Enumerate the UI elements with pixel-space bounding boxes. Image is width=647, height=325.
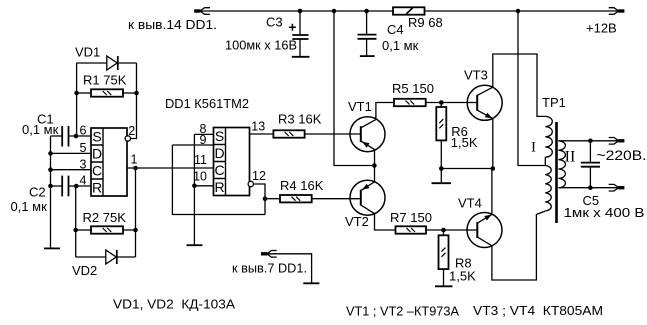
- transistor VT2 (KT973A, PNP): [350, 180, 385, 215]
- svg-text:VD2: VD2: [72, 263, 97, 278]
- svg-text:VD1, VD2 КД-103А: VD1, VD2 КД-103А: [113, 297, 236, 311]
- wire: VD1 cathode lead: [117, 62, 136, 64]
- junction: R5/R6/VT3 base: [439, 100, 444, 105]
- ground: R8 terminal bar: [435, 285, 453, 287]
- junction: pin 6 node: [74, 134, 79, 139]
- svg-text:0,1 мк: 0,1 мк: [382, 38, 419, 53]
- svg-text:VT1: VT1: [348, 99, 372, 114]
- junction: VT3/VT4 emitters: [491, 166, 496, 171]
- resistor R3: [273, 130, 304, 137]
- wire: R3 to VT1 base: [305, 133, 361, 135]
- ground: emitter common: [440, 169, 442, 184]
- junction: pin 8/10 tie: [192, 184, 197, 189]
- svg-text:3: 3: [80, 157, 87, 171]
- off-page arrow: output top: [618, 139, 624, 142]
- transistor VT1 (KT973A, PNP): [350, 117, 385, 152]
- svg-text:R1 75K: R1 75K: [83, 73, 127, 88]
- junction: VT1/VT2 emitters / +12V: [372, 163, 377, 168]
- junction: R1/VD1 left: [74, 91, 79, 96]
- svg-text:C: C: [92, 162, 102, 178]
- wire: pin 7 net: [267, 254, 312, 283]
- junction: rail / C4: [364, 9, 369, 14]
- wire: VT3 emitter to common node: [492, 119, 494, 169]
- wire: VT4 emitter to common node: [491, 169, 493, 215]
- resistor R2: [91, 226, 123, 233]
- svg-text:C3: C3: [266, 15, 283, 30]
- resistor R5: [394, 99, 426, 106]
- wire: R6 to emitter common: [440, 140, 442, 168]
- wire: DD1.2 pin 8 (S): [194, 133, 213, 135]
- TP1 secondary winding II: [558, 141, 565, 188]
- wire: R2 right lead: [123, 229, 136, 231]
- svg-text:~220В.: ~220В.: [597, 148, 647, 163]
- svg-text:DD1 К561ТМ2: DD1 К561ТМ2: [165, 96, 249, 111]
- svg-text:D: D: [92, 145, 102, 161]
- svg-text:VT1 ; VT2 –КТ973А: VT1 ; VT2 –КТ973А: [346, 304, 460, 318]
- svg-text:6: 6: [80, 124, 87, 138]
- junction: bus / pin 5: [48, 151, 53, 156]
- svg-text:VD1: VD1: [75, 45, 100, 60]
- svg-text:4: 4: [80, 174, 87, 188]
- wire: feedback loop to pin 9: [172, 145, 265, 215]
- svg-text:10: 10: [193, 170, 207, 184]
- svg-text:C: C: [214, 162, 224, 178]
- wire: VT4 collector to TP1 primary bottom: [492, 211, 545, 280]
- wire: VD2 anode lead: [76, 256, 106, 258]
- wire: left common bus of C1/C2: [50, 136, 52, 248]
- TP1 primary winding I (lower half): [545, 166, 551, 212]
- svg-text:R2 75K: R2 75K: [83, 210, 127, 225]
- off-page arrow: to pin 14 of DD1: [194, 9, 200, 12]
- C3 polarity plus sign: [289, 24, 296, 31]
- resistor R6: [440, 103, 442, 108]
- resistor R1: [91, 89, 123, 96]
- wire: VD2 cathode lead: [116, 256, 135, 258]
- wire: +12V top rail (right of R9): [425, 10, 619, 12]
- wire: DD1.2 pin 10 (R): [194, 185, 213, 187]
- junction: rail / TP1 tap feed: [516, 9, 521, 14]
- svg-text:R7 150: R7 150: [390, 210, 432, 225]
- junction: bus / C2: [48, 184, 53, 189]
- junction: R7/R8/VT4 base: [441, 228, 446, 233]
- wire: DD1.1 pin 5 (D): [51, 152, 92, 154]
- resistor R9: [393, 7, 425, 14]
- op IC DD1.1 (K561TM2 flip-flop half) body: [91, 128, 127, 196]
- svg-text:0,1 мк: 0,1 мк: [11, 199, 48, 214]
- TP1 primary winding I (upper half): [545, 116, 552, 157]
- wire: bus to C2 left plate: [51, 185, 63, 187]
- svg-text:1,5K: 1,5K: [449, 269, 476, 284]
- junction: rail / C3: [298, 9, 303, 14]
- svg-text:13: 13: [251, 119, 265, 133]
- svg-text:D: D: [214, 145, 224, 161]
- wire: VT2 collector to R7: [375, 214, 396, 230]
- svg-text:100мк x 16В: 100мк x 16В: [225, 38, 297, 53]
- wire: VT1 collector to R5: [376, 103, 394, 120]
- transistor VT3 (KT805AM, NPN): [467, 85, 502, 120]
- svg-text:II: II: [565, 149, 576, 166]
- wire: S/R grounding line: [193, 134, 195, 245]
- transformer TP1 core: [555, 122, 558, 223]
- resistor R7: [396, 226, 427, 233]
- wire: secondary bottom output: [558, 187, 618, 189]
- wire: R7 to VT4 base: [426, 229, 477, 231]
- wire: R1 left lead: [77, 92, 91, 94]
- svg-text:к выв.7 DD1.: к выв.7 DD1.: [232, 261, 307, 276]
- svg-text:R9 68: R9 68: [408, 15, 443, 30]
- svg-text:к выв.14 DD1.: к выв.14 DD1.: [128, 17, 217, 32]
- svg-text:S: S: [215, 128, 224, 144]
- off-page arrow: +12V supply: [618, 9, 624, 12]
- wire: right vertical to pin 2: [130, 63, 136, 139]
- junction: secondary top / C5: [588, 139, 593, 144]
- wire: R1 right lead: [123, 92, 137, 94]
- wire: VT3 collector to TP1 primary top: [493, 54, 546, 116]
- svg-text:S: S: [92, 128, 101, 144]
- C3 bottom terminal bar: [292, 56, 310, 58]
- junction: R2/VD2 left: [73, 228, 78, 233]
- terminal bar: DD1.2 S/R ground: [187, 244, 203, 246]
- svg-text:1мк x 400 В: 1мк x 400 В: [564, 205, 645, 220]
- wire: emitter common node: [441, 168, 493, 170]
- svg-text:0,1 мк: 0,1 мк: [22, 122, 59, 137]
- svg-text:C2: C2: [29, 184, 46, 199]
- wire: +12V feed to VT1/VT2 emitter node: [334, 11, 374, 166]
- svg-text:I: I: [531, 140, 536, 156]
- wire: R5 to VT3 base: [426, 102, 478, 104]
- junction: R2/VD2 right: [133, 228, 138, 233]
- svg-text:+12В: +12В: [586, 21, 617, 36]
- wire: secondary top output: [558, 140, 618, 142]
- junction: secondary bottom / C5: [588, 185, 593, 190]
- capacitor C3 (electrolytic 100uF): [299, 11, 301, 35]
- wire: DD1.2 pin 13 to R3: [250, 133, 274, 135]
- wire: R2 left lead: [76, 229, 91, 231]
- wire: DD1.1 pin 3 (C): [51, 169, 92, 171]
- junction: pin 4 node: [74, 184, 79, 189]
- svg-text:1: 1: [131, 153, 138, 167]
- junction: pin 1 node: [133, 166, 138, 171]
- junction: pin 12 / R4 tap: [263, 196, 268, 201]
- wire: right vertical pin1 to R2/VD2: [135, 168, 137, 257]
- diode VD2: [106, 250, 116, 264]
- capacitor C2 (0.1uF): [62, 176, 68, 197]
- terminal bar: C1/C2 common bus end: [44, 247, 60, 249]
- off-page arrow: to pin 7 of DD1: [261, 252, 267, 255]
- terminal bar: pin 7 net end: [303, 282, 319, 284]
- svg-text:R4 16K: R4 16K: [280, 178, 324, 193]
- wire: primary inter-group link: [544, 157, 546, 165]
- resistor R4: [265, 198, 280, 200]
- svg-text:12: 12: [252, 169, 266, 183]
- transistor VT4 (KT805AM, NPN): [467, 213, 502, 248]
- diode VD1: [107, 56, 117, 70]
- capacitor C5: [589, 141, 591, 163]
- wire: pin 12 output: [254, 184, 266, 215]
- DD1.2 pin 12 inverted-output bubble: [248, 181, 253, 186]
- svg-text:11: 11: [194, 153, 207, 167]
- junction: bus / pin 3: [48, 167, 53, 172]
- capacitor C4 (0.1uF): [366, 11, 368, 35]
- wire: bus to C1 left plate: [51, 135, 63, 137]
- svg-text:R5 150: R5 150: [392, 81, 434, 96]
- wire: VT2 emitter to +12V node: [374, 166, 376, 182]
- svg-text:C4: C4: [387, 22, 404, 37]
- junction: R6/ground: [439, 166, 444, 171]
- svg-text:VT3: VT3: [464, 68, 488, 83]
- svg-text:R: R: [92, 179, 102, 195]
- svg-text:5: 5: [80, 141, 87, 155]
- svg-text:9: 9: [200, 133, 207, 147]
- junction: rail / VT1-VT2 feed: [332, 9, 337, 14]
- svg-text:VT2: VT2: [345, 214, 369, 229]
- svg-text:2: 2: [128, 124, 135, 138]
- wire: R4 to VT2 base: [312, 198, 361, 200]
- svg-text:TP1: TP1: [542, 95, 566, 110]
- wire: left vertical R1/VD1 to pin 6: [76, 63, 78, 136]
- DD1.1 pin 2 inverted-output bubble: [125, 136, 130, 141]
- wire: VD1 anode lead: [77, 62, 107, 64]
- junction: R1/VD1 right: [134, 91, 139, 96]
- svg-text:1,5K: 1,5K: [451, 135, 478, 150]
- capacitor C1 (0.1uF): [62, 126, 68, 147]
- wire: +12V top rail (left of R9): [201, 10, 394, 12]
- wire: VT1 emitter to +12V node: [374, 150, 376, 166]
- wire: R8 bottom lead: [443, 269, 445, 286]
- wire: C2 to DD1.1 pin 4 (R): [69, 185, 92, 187]
- wire: DD1.1 pin 1 to DD1.2 pin 11: [127, 167, 214, 169]
- svg-text:VT4: VT4: [458, 196, 482, 211]
- wire: DD1.2 pin 9 (D): [172, 144, 213, 146]
- off-page arrow: output bottom: [618, 186, 624, 189]
- svg-text:R: R: [214, 179, 224, 195]
- svg-text:R3 16K: R3 16K: [278, 111, 322, 126]
- wire: C1 to DD1.1 pin 6 (S): [69, 135, 92, 137]
- wire: +12V feed to TP1 primary center tap: [518, 11, 545, 166]
- IC DD1.2 (K561TM2 flip-flop half) body: [214, 128, 250, 196]
- wire: left vertical pin 4 to R2/VD2: [75, 186, 77, 257]
- resistor R8: [443, 230, 445, 235]
- svg-text:VT3 ; VT4 КТ805АМ: VT3 ; VT4 КТ805АМ: [473, 304, 603, 318]
- C4 bottom terminal bar: [360, 55, 375, 57]
